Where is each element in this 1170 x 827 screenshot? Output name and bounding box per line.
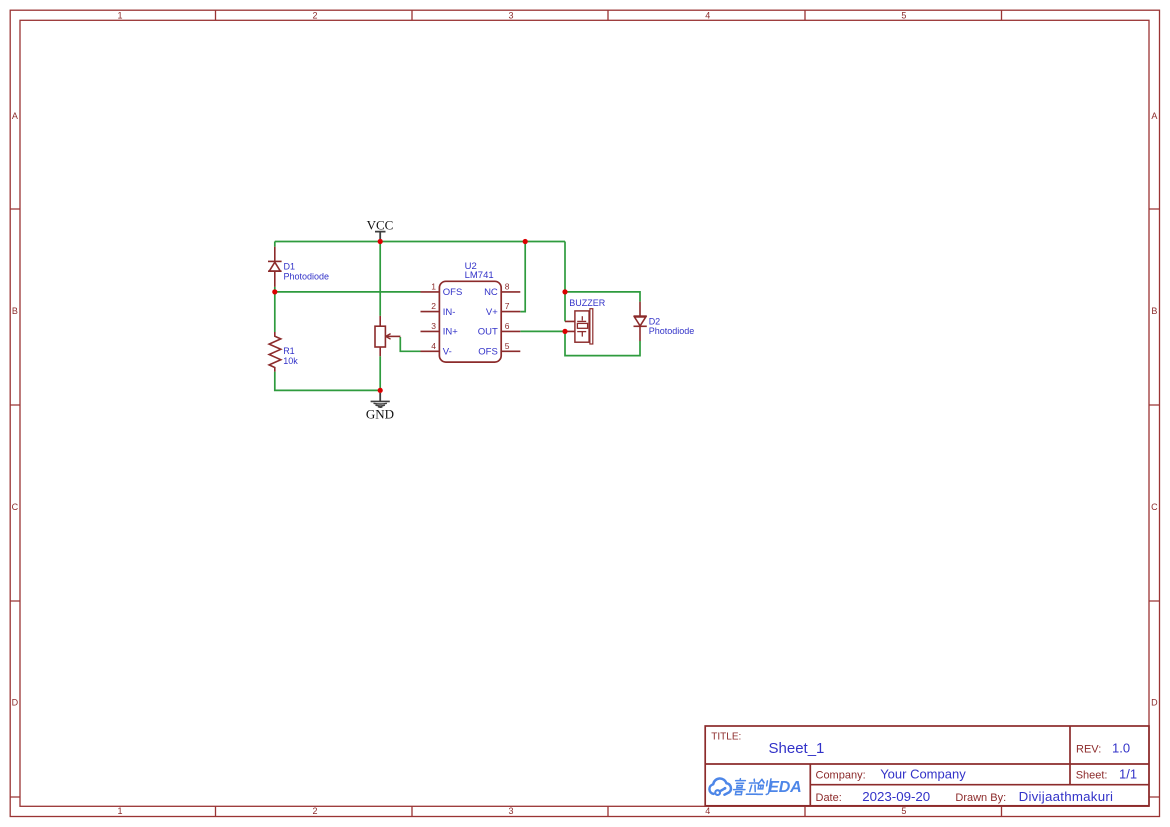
junction buzzer top node [562, 289, 567, 294]
svg-text:Date:: Date: [816, 792, 842, 804]
svg-text:V+: V+ [486, 307, 498, 318]
svg-text:7: 7 [505, 301, 510, 311]
wire D2 bottom to rail [565, 331, 640, 355]
svg-text:OFS: OFS [443, 287, 463, 298]
svg-text:1: 1 [117, 11, 122, 21]
junction D1 node [272, 289, 277, 294]
svg-text:5: 5 [901, 11, 906, 21]
logo EasyEDA cloud [709, 778, 731, 795]
wire VCC to potentiometer [379, 242, 381, 316]
svg-text:IN+: IN+ [443, 327, 459, 338]
svg-text:C: C [1151, 502, 1158, 512]
wire R1 to bottom rail [275, 372, 380, 391]
wire node to D2 top [565, 292, 640, 302]
svg-text:3: 3 [431, 321, 436, 331]
svg-text:Sheet_1: Sheet_1 [769, 740, 825, 757]
wire U2 pin 7 V+ to top rail [520, 242, 525, 312]
svg-text:2023-09-20: 2023-09-20 [862, 789, 930, 804]
U2 pin 3 IN+ [421, 321, 459, 338]
svg-text:3: 3 [508, 806, 513, 816]
title block [705, 726, 1149, 806]
svg-text:1.0: 1.0 [1112, 741, 1130, 756]
svg-text:B: B [1151, 306, 1157, 316]
U2 pin 1 OFS [421, 281, 463, 298]
svg-text:IN-: IN- [443, 307, 456, 318]
U2 pin 2 IN- [421, 301, 456, 318]
svg-text:1/1: 1/1 [1119, 767, 1137, 782]
svg-text:EDA: EDA [768, 779, 801, 796]
svg-text:2: 2 [312, 11, 317, 21]
svg-text:BUZZER: BUZZER [569, 298, 606, 308]
svg-text:Company:: Company: [816, 770, 866, 782]
svg-text:C: C [12, 502, 19, 512]
wire node to buzzer top pin [564, 292, 566, 322]
potentiometer [375, 316, 400, 356]
wire U2 OUT to buzzer node [520, 330, 565, 332]
svg-text:5: 5 [901, 806, 906, 816]
junction VCC rail [378, 239, 383, 244]
wire top rail right drop [564, 242, 566, 292]
svg-text:D2: D2 [649, 316, 661, 326]
junction GND node [378, 388, 383, 393]
svg-text:Photodiode: Photodiode [649, 326, 695, 336]
svg-text:D1: D1 [284, 262, 296, 272]
svg-text:D: D [12, 698, 19, 708]
U2 pin 8 NC [484, 281, 520, 298]
buzzer [565, 309, 593, 344]
svg-text:Divijaathmakuri: Divijaathmakuri [1019, 789, 1114, 804]
op-amp U2 body [439, 281, 501, 362]
svg-text:B: B [12, 306, 18, 316]
svg-text:A: A [12, 111, 18, 121]
svg-text:LM741: LM741 [465, 270, 494, 281]
svg-text:Drawn By:: Drawn By: [955, 792, 1006, 804]
photodiode D1 [268, 247, 282, 287]
svg-text:V-: V- [443, 347, 452, 358]
svg-text:4: 4 [705, 806, 710, 816]
svg-text:VCC: VCC [367, 218, 394, 233]
U2 pin 5 OFS [478, 341, 520, 358]
svg-text:TITLE:: TITLE: [711, 731, 741, 742]
svg-text:D: D [1151, 698, 1158, 708]
U2 pin 6 OUT [478, 321, 521, 338]
U2 pin 4 V- [421, 341, 452, 358]
svg-text:2: 2 [431, 301, 436, 311]
ground GND [366, 393, 394, 422]
svg-text:R1: R1 [283, 346, 295, 356]
wire VCC top rail [275, 241, 565, 243]
wire potentiometer to GND node [379, 356, 381, 390]
wire wiper to U2 pin 4 [400, 337, 420, 351]
svg-text:GND: GND [366, 407, 394, 422]
svg-text:OFS: OFS [478, 347, 498, 358]
svg-text:REV:: REV: [1076, 744, 1101, 756]
svg-text:Sheet:: Sheet: [1076, 770, 1108, 782]
svg-text:4: 4 [431, 341, 436, 351]
resistor R1 [269, 332, 281, 372]
svg-text:1: 1 [431, 281, 436, 291]
svg-text:NC: NC [484, 287, 498, 298]
svg-text:Photodiode: Photodiode [284, 271, 330, 281]
junction buzzer bottom node [562, 329, 567, 334]
power flag VCC [367, 218, 394, 240]
svg-text:2: 2 [312, 806, 317, 816]
svg-text:5: 5 [505, 341, 510, 351]
junction V+ rail [523, 239, 528, 244]
svg-text:4: 4 [705, 11, 710, 21]
svg-text:Your Company: Your Company [880, 767, 966, 782]
wire D1 node to U2 pin 1 [275, 291, 421, 293]
svg-text:1: 1 [117, 806, 122, 816]
wire node to R1 [274, 292, 276, 332]
photodiode D2 [634, 302, 647, 341]
wire top rail to D1 [274, 242, 276, 247]
svg-text:3: 3 [508, 11, 513, 21]
U2 pin 7 V+ [486, 301, 520, 318]
svg-text:A: A [1151, 111, 1157, 121]
svg-text:8: 8 [505, 281, 510, 291]
svg-text:OUT: OUT [478, 327, 498, 338]
svg-text:6: 6 [505, 321, 510, 331]
wire D1 to node [274, 287, 276, 292]
svg-text:10k: 10k [283, 356, 298, 366]
logo EasyEDA text [733, 779, 771, 795]
